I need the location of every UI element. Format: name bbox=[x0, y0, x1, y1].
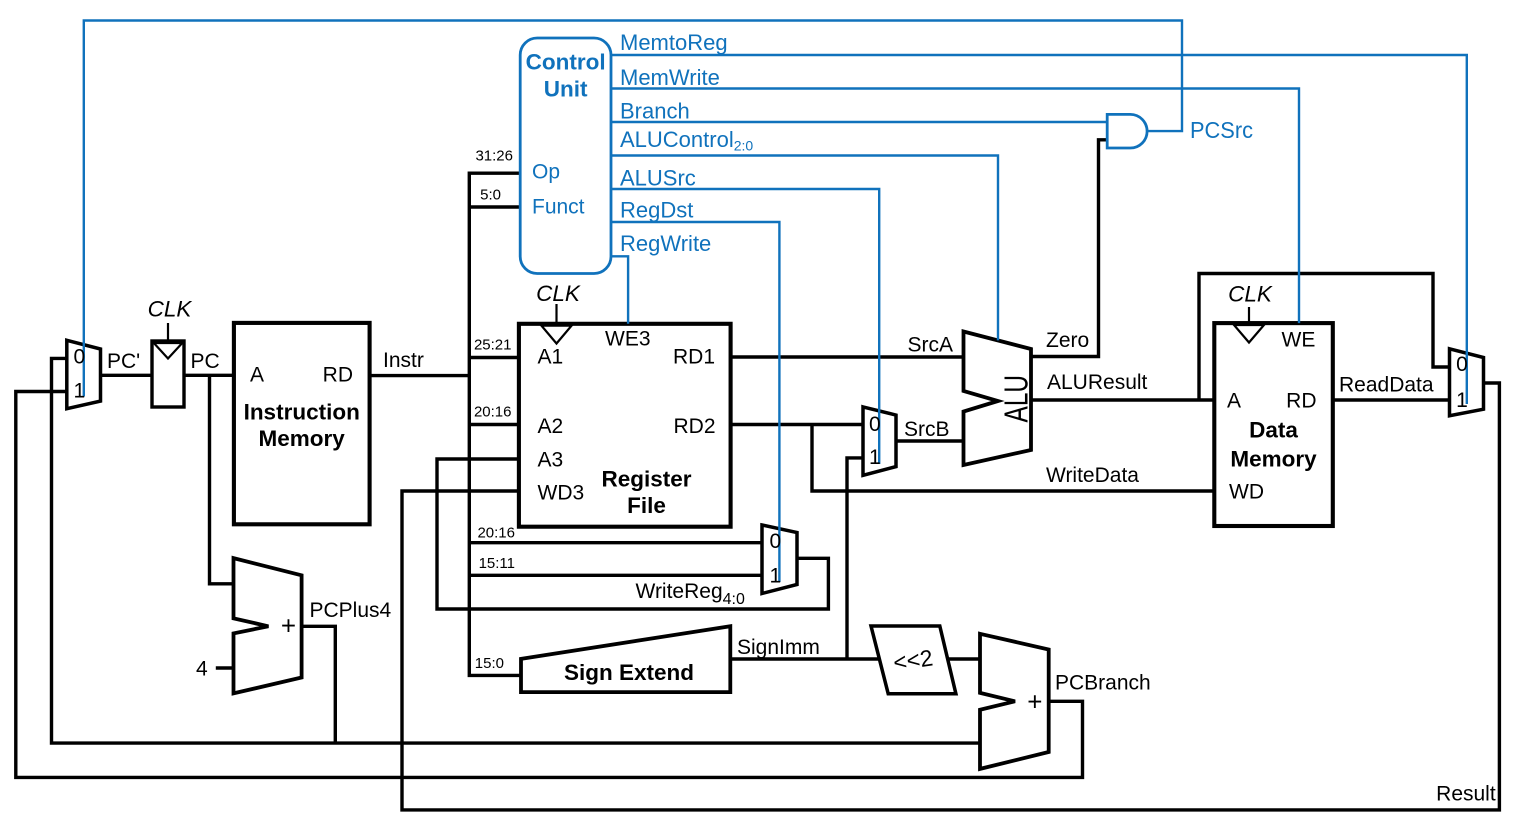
label shift amount bbox=[892, 644, 935, 675]
register PC bbox=[152, 341, 184, 407]
wire Funct tap 5:0 bbox=[469, 205, 520, 208]
alu U1 bbox=[964, 332, 1032, 466]
svg-text:SignImm: SignImm bbox=[737, 636, 820, 659]
svg-text:Register: Register bbox=[601, 467, 691, 492]
svg-text:A1: A1 bbox=[538, 346, 564, 369]
svg-text:ReadData: ReadData bbox=[1339, 374, 1434, 397]
svg-text:PC: PC bbox=[191, 350, 220, 373]
wire PC' mux to PC register bbox=[101, 374, 153, 377]
wire 25:21 tap to A1 bbox=[469, 356, 519, 359]
block Data Memory bbox=[1214, 323, 1333, 526]
svg-text:CLK: CLK bbox=[1228, 282, 1273, 307]
svg-text:1: 1 bbox=[769, 565, 781, 588]
wire constant 4 stub bbox=[216, 666, 234, 669]
wire WriteReg mux output loop to A3 bbox=[437, 459, 828, 609]
wire RD2 to SrcB mux 0 bbox=[731, 423, 863, 426]
wire RegDst to WriteReg mux select bbox=[611, 222, 779, 582]
svg-text:RD1: RD1 bbox=[673, 346, 715, 369]
svg-text:CLK: CLK bbox=[148, 297, 193, 322]
svg-text:20:16: 20:16 bbox=[477, 525, 515, 542]
block Instruction Memory bbox=[234, 323, 370, 524]
svg-text:31:26: 31:26 bbox=[475, 148, 513, 165]
svg-text:A2: A2 bbox=[538, 415, 564, 438]
wire MemtoReg to result mux select bbox=[611, 55, 1467, 404]
adder PCPlus4 bbox=[234, 558, 302, 693]
svg-text:RegWrite: RegWrite bbox=[620, 231, 711, 256]
control unit rounded block bbox=[520, 38, 611, 274]
wire PCBranch adder output loop to PC mux 1 bbox=[16, 392, 1083, 778]
wire ALUSrc to SrcB mux select bbox=[611, 189, 879, 464]
svg-text:WriteData: WriteData bbox=[1046, 464, 1139, 487]
wire Branch to AND gate input bbox=[611, 121, 1107, 123]
clock triangle Data Memory bbox=[1234, 307, 1264, 343]
svg-text:1: 1 bbox=[869, 446, 881, 469]
svg-text:25:21: 25:21 bbox=[474, 337, 512, 354]
svg-text:+: + bbox=[1027, 687, 1042, 717]
svg-text:A: A bbox=[1227, 390, 1241, 413]
svg-text:WD: WD bbox=[1229, 481, 1264, 504]
svg-text:ALUControl2:0: ALUControl2:0 bbox=[620, 127, 753, 154]
svg-text:Instr: Instr bbox=[383, 349, 424, 372]
svg-text:CLK: CLK bbox=[536, 281, 581, 306]
block Register File bbox=[519, 324, 731, 527]
svg-text:PCSrc: PCSrc bbox=[1190, 117, 1253, 143]
svg-text:A3: A3 bbox=[538, 449, 564, 472]
wire RD1 SrcA to ALU bbox=[731, 355, 964, 358]
svg-text:PC': PC' bbox=[107, 350, 140, 373]
wire PC register to Instruction Memory A bbox=[184, 374, 234, 377]
wire PCPlus4 loop to PC mux 0 and PCBranch adder lower input bbox=[52, 358, 981, 743]
svg-text:Data: Data bbox=[1249, 418, 1298, 443]
wire PC branch down to PCPlus4 adder top input bbox=[210, 375, 234, 584]
svg-text:Control: Control bbox=[526, 50, 606, 75]
wire ALUControl to ALU bbox=[611, 156, 998, 341]
svg-text:4: 4 bbox=[196, 658, 208, 681]
wire Result loop from result mux to Register File WD3 bbox=[402, 383, 1499, 810]
wire 15:11 tap to WriteReg mux 1 bbox=[469, 574, 762, 577]
svg-text:RegDst: RegDst bbox=[620, 198, 693, 223]
wire shifter output to PCBranch adder bbox=[948, 657, 980, 660]
wire SignImm from Sign Extend to shifter bbox=[730, 657, 880, 660]
svg-text:Op: Op bbox=[532, 161, 560, 184]
clock triangle Register File bbox=[542, 304, 572, 344]
wire SignImm branch up to SrcB mux 1 bbox=[847, 458, 863, 659]
svg-text:PCPlus4: PCPlus4 bbox=[310, 599, 392, 622]
svg-text:A: A bbox=[250, 364, 264, 387]
svg-text:MemWrite: MemWrite bbox=[620, 65, 720, 90]
wire Instr from IM RD to instruction bus bbox=[370, 374, 470, 377]
wire instruction bus vertical with Op tap and 15:0 tap bbox=[469, 173, 521, 675]
svg-text:Memory: Memory bbox=[259, 426, 346, 451]
svg-text:1: 1 bbox=[1456, 389, 1468, 412]
svg-text:Funct: Funct bbox=[532, 196, 585, 219]
mux SrcB (0/1) bbox=[863, 407, 896, 475]
svg-text:Sign Extend: Sign Extend bbox=[564, 660, 694, 685]
svg-text:SrcB: SrcB bbox=[904, 418, 950, 441]
svg-text:WE: WE bbox=[1282, 329, 1316, 352]
wire PCSrc from AND gate to PC mux select bbox=[84, 21, 1182, 397]
svg-text:Instruction: Instruction bbox=[244, 400, 360, 425]
clock triangle PC bbox=[154, 323, 183, 359]
svg-text:0: 0 bbox=[73, 346, 85, 369]
svg-text:PCBranch: PCBranch bbox=[1055, 672, 1151, 695]
svg-text:ALUResult: ALUResult bbox=[1047, 371, 1148, 394]
wire ALUResult to Data Memory A bbox=[1031, 398, 1214, 401]
svg-text:RD: RD bbox=[323, 364, 353, 387]
svg-text:0: 0 bbox=[769, 530, 781, 553]
adder PCBranch bbox=[980, 634, 1049, 769]
svg-text:WD3: WD3 bbox=[538, 482, 585, 505]
svg-text:20:16: 20:16 bbox=[474, 403, 512, 420]
shifter left-shift-2 bbox=[871, 626, 956, 694]
svg-text:5:0: 5:0 bbox=[480, 187, 501, 204]
svg-text:Result: Result bbox=[1436, 783, 1496, 806]
svg-text:<<2: <<2 bbox=[892, 644, 935, 675]
svg-text:Branch: Branch bbox=[620, 99, 690, 124]
wire Zero from ALU to AND gate bbox=[1031, 140, 1107, 357]
svg-text:1: 1 bbox=[73, 379, 85, 402]
mux PC source (0/1) bbox=[67, 340, 101, 408]
svg-text:MemtoReg: MemtoReg bbox=[620, 30, 728, 55]
svg-text:Zero: Zero bbox=[1046, 329, 1089, 352]
svg-text:ALU: ALU bbox=[997, 375, 1034, 423]
svg-text:0: 0 bbox=[1456, 353, 1468, 376]
svg-text:RD: RD bbox=[1286, 390, 1316, 413]
wire RegWrite to Register File WE3 bbox=[611, 256, 628, 324]
svg-text:Memory: Memory bbox=[1230, 447, 1317, 472]
wire WriteData from RD2 junction to Data Memory WD bbox=[812, 425, 1214, 492]
svg-text:File: File bbox=[627, 493, 666, 518]
mux WriteReg (0/1) bbox=[762, 525, 797, 594]
svg-text:RD2: RD2 bbox=[673, 415, 715, 438]
wire 20:16 tap to A2 bbox=[469, 423, 519, 426]
and gate PCSrc bbox=[1107, 114, 1147, 148]
svg-text:0: 0 bbox=[869, 413, 881, 436]
svg-text:ALUSrc: ALUSrc bbox=[620, 166, 696, 191]
wire MemWrite to Data Memory WE bbox=[611, 89, 1299, 324]
svg-text:WE3: WE3 bbox=[605, 328, 651, 351]
svg-text:Unit: Unit bbox=[544, 77, 588, 102]
wire PCPlus4 adder output bbox=[302, 626, 336, 743]
svg-text:15:11: 15:11 bbox=[479, 555, 515, 572]
svg-text:SrcA: SrcA bbox=[907, 334, 953, 357]
wire 20:16 tap to WriteReg mux 0 bbox=[469, 541, 762, 544]
wire SrcB mux output to ALU bbox=[896, 439, 964, 442]
wire ReadData to result mux 1 bbox=[1333, 398, 1450, 401]
svg-text:15:0: 15:0 bbox=[475, 655, 504, 672]
block Sign Extend bbox=[521, 626, 730, 692]
svg-text:+: + bbox=[281, 611, 296, 641]
mux Result (0/1) bbox=[1450, 349, 1484, 416]
wire ALUResult bypass around Data Memory to result mux 0 bbox=[1199, 274, 1450, 401]
